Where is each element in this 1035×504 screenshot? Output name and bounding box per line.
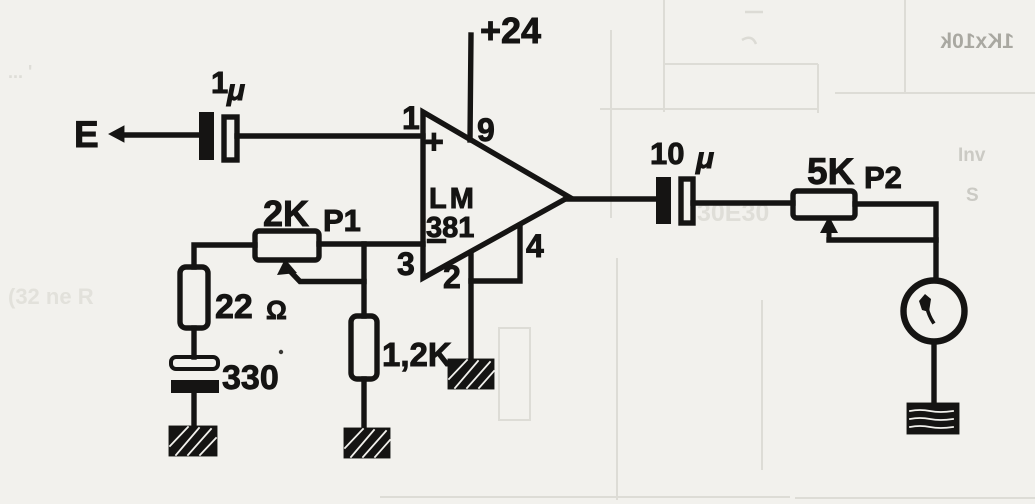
potentiometer P1 2K <box>255 193 364 282</box>
svg-text:+24: +24 <box>480 10 541 51</box>
wire P2 right end down to meter <box>855 204 936 281</box>
ground below R2 <box>344 428 390 458</box>
svg-text:Inv: Inv <box>958 145 986 166</box>
svg-text:+: + <box>424 123 444 161</box>
svg-text:10: 10 <box>650 136 684 171</box>
svg-text:P1: P1 <box>323 203 361 238</box>
svg-text:P2: P2 <box>864 160 902 195</box>
wiper P2 <box>827 228 832 240</box>
svg-text:μ: μ <box>226 74 245 107</box>
capacitor C2 10u <box>650 136 714 224</box>
wiper P1 <box>277 259 297 275</box>
wire C1 to op-amp pin 1 <box>237 133 423 138</box>
meter M1 <box>904 281 965 342</box>
svg-text:2K: 2K <box>263 193 309 234</box>
svg-text:1: 1 <box>402 100 420 136</box>
wire E to C1 <box>120 132 199 137</box>
stray ink dot <box>279 350 283 354</box>
capacitor C3 330 <box>171 357 279 397</box>
svg-text:LM: LM <box>429 183 477 215</box>
wire P1 right to pin 3 <box>319 241 423 246</box>
wire R1 to C3 <box>191 328 196 357</box>
wire pin 4 loop <box>471 226 520 281</box>
svg-text:E: E <box>74 114 99 155</box>
resistor R2 1,2K <box>351 316 452 379</box>
ground below meter <box>907 403 959 434</box>
wire pin 2 down to ground <box>468 254 473 357</box>
svg-text:... ': ... ' <box>8 62 32 82</box>
wire C3 to ground <box>191 393 196 426</box>
potentiometer P2 5K <box>793 151 936 240</box>
capacitor C1 1u <box>199 65 245 160</box>
wire meter to ground <box>931 342 936 404</box>
wire P1 left to R 22 <box>194 245 255 267</box>
resistor R1 22ohm <box>180 267 287 328</box>
svg-text:3: 3 <box>397 246 415 282</box>
wire output to C2 <box>566 196 657 201</box>
wire C2 to P2 <box>693 200 793 205</box>
power +24 <box>470 35 471 140</box>
svg-text:330: 330 <box>222 359 279 397</box>
ground below pin 2 <box>448 359 494 389</box>
svg-text:1Kx10k: 1Kx10k <box>940 30 1014 53</box>
svg-text:4: 4 <box>526 228 544 264</box>
svg-text:S: S <box>966 185 979 206</box>
svg-text:22: 22 <box>215 288 253 326</box>
wire R2 to ground <box>361 379 366 428</box>
svg-text:μ: μ <box>695 142 714 175</box>
op-amp U1 LM381 <box>397 100 569 295</box>
svg-text:5K: 5K <box>807 151 855 192</box>
svg-text:2: 2 <box>443 259 461 295</box>
wire junction down to R 1,2K <box>361 244 366 316</box>
svg-text:1,2K: 1,2K <box>382 336 452 373</box>
svg-text:1: 1 <box>211 65 228 100</box>
ground below C3 <box>169 426 217 456</box>
svg-text:(32 ne R: (32 ne R <box>8 284 94 309</box>
svg-text:Ω: Ω <box>266 295 287 325</box>
node E <box>74 114 124 155</box>
svg-text:9: 9 <box>477 112 495 148</box>
